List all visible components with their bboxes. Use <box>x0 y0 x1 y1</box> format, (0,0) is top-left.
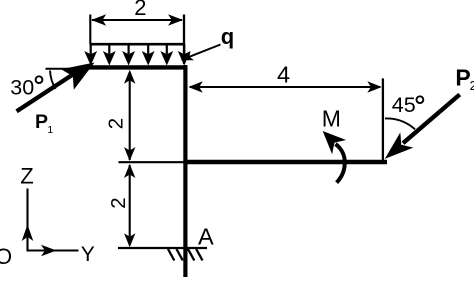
svg-text:O: O <box>0 244 12 269</box>
svg-text:P: P <box>455 65 470 91</box>
svg-text:2: 2 <box>105 118 128 129</box>
svg-text:q: q <box>221 24 234 49</box>
svg-text:Z: Z <box>20 163 33 188</box>
svg-text:2: 2 <box>470 78 474 93</box>
svg-text:30: 30 <box>10 75 34 99</box>
svg-text:Y: Y <box>81 243 95 266</box>
svg-text:P: P <box>35 111 48 133</box>
svg-text:A: A <box>198 224 214 250</box>
svg-text:2: 2 <box>107 197 130 208</box>
svg-text:4: 4 <box>277 62 290 88</box>
svg-text:M: M <box>322 106 341 132</box>
svg-text:1: 1 <box>47 124 53 136</box>
svg-text:2: 2 <box>134 0 146 20</box>
svg-text:45: 45 <box>392 93 416 117</box>
